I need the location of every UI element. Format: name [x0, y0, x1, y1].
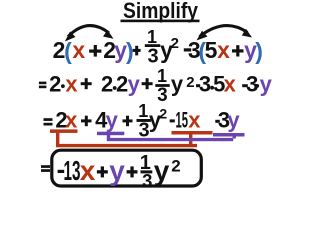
svg-text:y: y — [106, 108, 119, 133]
svg-text:3: 3 — [157, 85, 168, 106]
svg-text:x: x — [188, 108, 201, 133]
-3.y line 2 — [242, 72, 272, 97]
svg-text:x: x — [72, 37, 85, 63]
purple bracket: vertical drop — [107, 135, 110, 139]
arrow over 3(5x+y) — [197, 26, 253, 41]
svg-text:2: 2 — [171, 156, 180, 175]
svg-text:x: x — [65, 108, 78, 133]
y^2 line 1 — [160, 35, 179, 63]
svg-text:3: 3 — [142, 170, 152, 190]
y^2 line 3 — [149, 105, 168, 132]
line 4: -13x + y + 1/3y^2 — [58, 155, 138, 186]
red bracket: vertical up to -15x underline — [189, 134, 192, 144]
equals before answer box — [41, 165, 50, 172]
svg-text:3: 3 — [246, 72, 258, 97]
line 3: = 2x + 4y + 1/3y^2 - 15x - 3y — [44, 108, 133, 133]
svg-text:y: y — [227, 108, 240, 133]
svg-text:5: 5 — [205, 37, 218, 63]
purple underline under -3y — [213, 133, 245, 137]
line 2: = 2.x + 2.2y + 1/3y^2 - 3.5x - 3.y — [39, 72, 153, 97]
red bracket: left vertical drop — [56, 133, 59, 146]
svg-text:13: 13 — [64, 155, 81, 186]
svg-text:1: 1 — [138, 101, 148, 121]
svg-text:2: 2 — [171, 35, 179, 52]
fraction 1/3 line 1 — [145, 27, 160, 67]
fraction 1/3 line 3 — [137, 101, 151, 142]
purple underline under 4y — [97, 132, 124, 136]
svg-text:): ) — [126, 38, 134, 64]
svg-text:y: y — [260, 72, 273, 97]
line 1: 2(x + 2y) + 1/3 y^2 - 3(5x + y) — [53, 37, 141, 64]
svg-text:(: ( — [64, 38, 72, 64]
svg-text:y: y — [128, 72, 141, 97]
svg-text:2: 2 — [186, 74, 194, 91]
purple bracket connector line — [107, 138, 233, 141]
fraction 1/3 line 2 — [155, 66, 169, 106]
svg-text:y: y — [171, 72, 184, 97]
-15x line 3 — [170, 108, 202, 133]
svg-text:1: 1 — [157, 66, 167, 86]
-3.5x line 2 — [196, 72, 237, 97]
red underline under 2x — [50, 129, 78, 133]
svg-text:y: y — [154, 155, 170, 186]
svg-text:Simplify: Simplify — [123, 0, 198, 23]
y^2 line 4 — [154, 155, 181, 186]
-3y line 3 — [215, 108, 240, 133]
svg-text:2: 2 — [116, 72, 128, 97]
svg-text:x: x — [80, 155, 96, 186]
fraction 1/3 line 4 — [140, 152, 153, 191]
answer box — [52, 150, 202, 186]
arrow over 2(x+2y) — [65, 26, 114, 42]
purple bracket: vertical up to -3y underline — [233, 136, 236, 139]
svg-text:y: y — [109, 155, 125, 186]
svg-text:x: x — [224, 72, 237, 97]
-3(5x+y) line 1 — [184, 37, 263, 64]
red bracket connector line — [56, 144, 197, 147]
y^2 line 2 — [171, 72, 195, 97]
red underline under -15x — [172, 131, 213, 135]
svg-text:): ) — [255, 38, 263, 64]
svg-text:3: 3 — [147, 46, 158, 68]
title Simplify — [121, 0, 200, 23]
svg-text:15: 15 — [176, 108, 189, 133]
svg-text:2: 2 — [101, 72, 113, 97]
svg-text:3: 3 — [199, 72, 211, 97]
svg-text:x: x — [217, 37, 230, 63]
svg-text:2: 2 — [159, 105, 167, 121]
svg-text:x: x — [65, 72, 78, 97]
svg-text:2: 2 — [49, 72, 61, 97]
